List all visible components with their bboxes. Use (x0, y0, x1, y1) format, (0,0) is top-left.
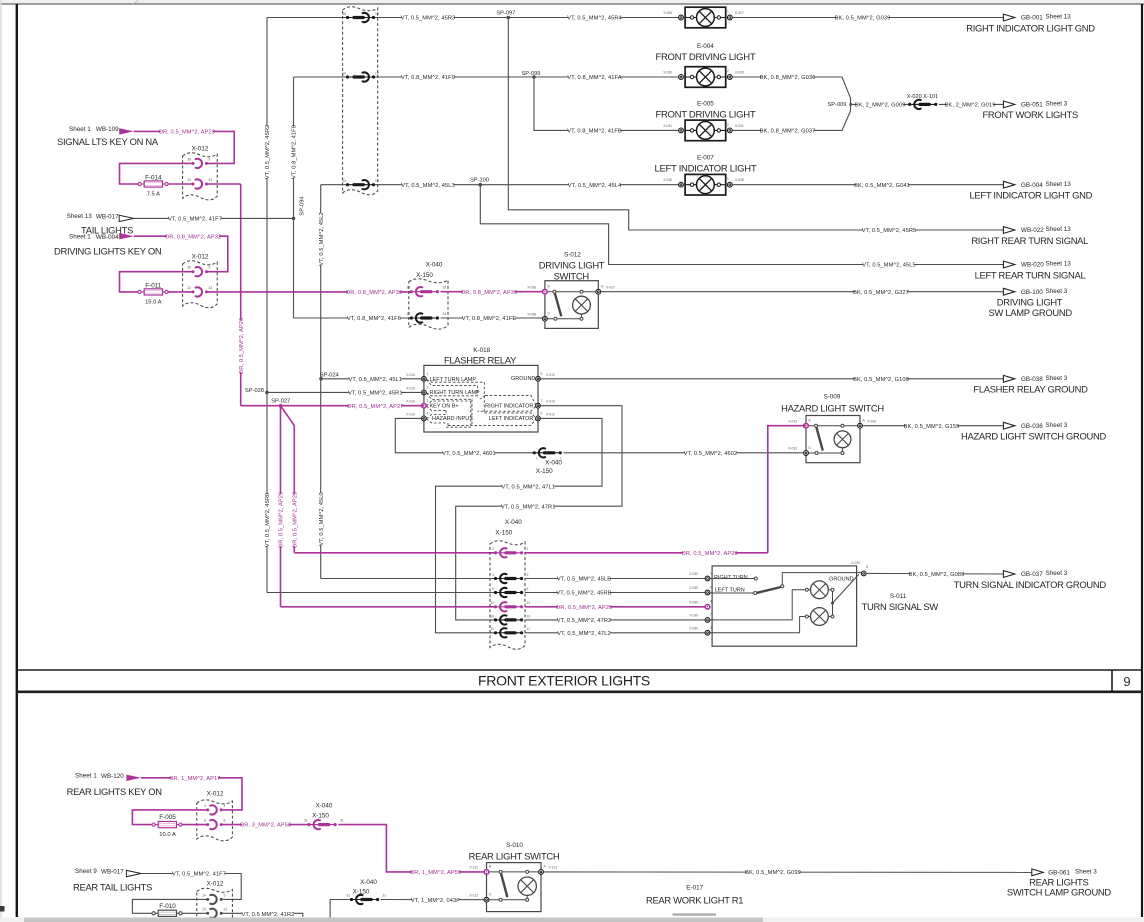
svg-text:Sheet 13: Sheet 13 (1046, 181, 1072, 188)
svg-text:4: 4 (204, 804, 206, 808)
svg-text:Sheet 3: Sheet 3 (1046, 288, 1068, 295)
svg-text:S-009: S-009 (824, 393, 841, 400)
svg-text:5: 5 (209, 157, 211, 161)
svg-text:BK, 0.8_MM^2, G037: BK, 0.8_MM^2, G037 (760, 128, 816, 134)
svg-text:8: 8 (224, 819, 226, 823)
svg-text:VT, 0.5_MM^2, 45LB: VT, 0.5_MM^2, 45LB (557, 577, 611, 583)
svg-text:OR, 0.5_MM^2, AP29: OR, 0.5_MM^2, AP29 (279, 492, 285, 548)
svg-text:19: 19 (342, 71, 346, 75)
svg-text:X-010: X-010 (546, 373, 555, 377)
svg-text:1: 1 (684, 69, 686, 73)
svg-text:BK, 0.5_MM^2, G039: BK, 0.5_MM^2, G039 (835, 16, 891, 22)
svg-text:X-039: X-039 (689, 586, 698, 590)
svg-text:1: 1 (684, 10, 686, 14)
svg-text:VT, 1_MM^2, 043P: VT, 1_MM^2, 043P (411, 898, 460, 904)
svg-text:4: 4 (224, 804, 226, 808)
svg-text:18: 18 (375, 12, 379, 16)
svg-text:1: 1 (536, 457, 538, 461)
svg-text:VT, 0.8_MM^2, 41FE: VT, 0.8_MM^2, 41FE (462, 316, 517, 322)
svg-text:X-012: X-012 (207, 791, 224, 798)
svg-text:X-038: X-038 (735, 178, 744, 182)
svg-text:S-012: S-012 (564, 251, 581, 258)
svg-text:5: 5 (527, 587, 529, 591)
svg-text:WB-022: WB-022 (1021, 227, 1044, 234)
svg-text:X-010: X-010 (406, 412, 415, 416)
svg-text:WB-020: WB-020 (1021, 262, 1044, 269)
svg-text:BK, 0.5_MM^2, G089: BK, 0.5_MM^2, G089 (909, 572, 965, 578)
svg-text:TURN SIGNAL SW: TURN SIGNAL SW (862, 601, 939, 612)
svg-text:X-006: X-006 (663, 11, 672, 15)
svg-text:F-014: F-014 (145, 175, 162, 182)
svg-text:10: 10 (490, 614, 494, 618)
svg-text:OR, 0.5_MM^2, AP26: OR, 0.5_MM^2, AP26 (239, 318, 245, 374)
svg-text:7: 7 (541, 399, 543, 403)
svg-text:3: 3 (527, 573, 529, 577)
svg-text:33: 33 (406, 286, 410, 290)
svg-text:REAR WORK LIGHT R1: REAR WORK LIGHT R1 (646, 894, 743, 905)
svg-text:X-010: X-010 (406, 386, 415, 390)
svg-text:X-150: X-150 (495, 529, 512, 536)
svg-text:X-038: X-038 (527, 312, 536, 316)
svg-text:WB-017: WB-017 (96, 213, 119, 220)
svg-text:Sheet 3: Sheet 3 (1046, 101, 1068, 108)
svg-text:WB-004: WB-004 (96, 234, 119, 241)
svg-text:WB-109: WB-109 (96, 126, 119, 133)
svg-text:X-031: X-031 (735, 124, 744, 128)
svg-text:SWITCH: SWITCH (554, 270, 589, 281)
svg-text:E-005: E-005 (697, 101, 714, 108)
svg-text:VT, 0.5_MM^2, 45R2: VT, 0.5_MM^2, 45R2 (265, 125, 271, 180)
svg-text:X-033: X-033 (788, 447, 797, 451)
svg-text:VT, 0.5 MM^2, 41R2: VT, 0.5 MM^2, 41R2 (242, 912, 295, 918)
svg-text:5: 5 (209, 266, 211, 270)
svg-text:DRIVING LIGHT: DRIVING LIGHT (997, 297, 1063, 308)
svg-text:3: 3 (710, 626, 712, 630)
svg-text:X-020 X-101: X-020 X-101 (907, 94, 938, 100)
svg-text:RIGHT REAR TURN SIGNAL: RIGHT REAR TURN SIGNAL (971, 235, 1088, 246)
svg-text:VT, 0.5_MM^2, 45R1: VT, 0.5_MM^2, 45R1 (348, 390, 403, 396)
svg-text:FRONT EXTERIOR LIGHTS: FRONT EXTERIOR LIGHTS (478, 673, 650, 689)
svg-text:3: 3 (492, 573, 494, 577)
svg-text:FLASHER RELAY: FLASHER RELAY (444, 354, 517, 365)
svg-text:X-039: X-039 (689, 572, 698, 576)
svg-text:SIGNAL LTS KEY ON NA: SIGNAL LTS KEY ON NA (57, 136, 159, 147)
svg-text:X-040: X-040 (316, 802, 333, 809)
svg-text:GB-037: GB-037 (1021, 571, 1043, 578)
svg-text:X-040: X-040 (505, 519, 522, 526)
svg-text:RIGHT INDICATOR LIGHT GND: RIGHT INDICATOR LIGHT GND (966, 22, 1095, 33)
svg-text:X-040: X-040 (360, 879, 377, 886)
svg-text:E-007: E-007 (697, 155, 714, 162)
svg-text:HAZARD LIGHT SWITCH: HAZARD LIGHT SWITCH (781, 402, 884, 413)
svg-text:VT, 0.8_MM^2, 41F8: VT, 0.8_MM^2, 41F8 (292, 125, 298, 179)
svg-text:OR, 0.8_MM^2, AP32: OR, 0.8_MM^2, AP32 (165, 234, 221, 240)
svg-text:BK, 2_MM^2, G009: BK, 2_MM^2, G009 (855, 102, 906, 108)
svg-text:GB-004: GB-004 (1021, 182, 1043, 189)
svg-text:34: 34 (443, 312, 447, 316)
svg-text:31: 31 (304, 819, 308, 823)
svg-text:GB-100: GB-100 (1021, 289, 1043, 296)
svg-text:FRONT DRIVING LIGHT: FRONT DRIVING LIGHT (655, 109, 755, 120)
svg-text:SP-009: SP-009 (828, 102, 847, 108)
svg-text:REAR LIGHT SWITCH: REAR LIGHT SWITCH (469, 850, 560, 861)
svg-text:X-012: X-012 (192, 145, 209, 152)
svg-text:Sheet 3: Sheet 3 (1046, 422, 1068, 429)
svg-text:X-010: X-010 (546, 400, 555, 404)
svg-text:1: 1 (710, 571, 712, 575)
svg-text:K-018: K-018 (473, 347, 490, 354)
svg-text:X-039: X-039 (689, 600, 698, 604)
svg-text:X-031: X-031 (663, 124, 672, 128)
svg-text:2: 2 (492, 547, 494, 551)
svg-text:34: 34 (406, 312, 410, 316)
svg-text:X-039: X-039 (689, 626, 698, 630)
svg-text:FLASHER RELAY GROUND: FLASHER RELAY GROUND (973, 384, 1088, 395)
svg-text:VT, 0.5_MM^2, 41F7: VT, 0.5_MM^2, 41F7 (172, 872, 226, 878)
svg-text:WB-017: WB-017 (101, 869, 124, 876)
svg-text:SP-024: SP-024 (320, 372, 339, 378)
svg-text:VT, 0.5_MM^2, 45L1: VT, 0.5_MM^2, 45L1 (348, 377, 402, 383)
svg-text:VT, 0.8_MM^2, 41FA: VT, 0.8_MM^2, 41FA (567, 75, 621, 81)
svg-text:VT, 0.5_MM^2, 45L0: VT, 0.5_MM^2, 45L0 (319, 492, 325, 546)
svg-text:Sheet 3: Sheet 3 (1046, 375, 1068, 382)
svg-text:Sheet 13: Sheet 13 (1046, 261, 1072, 268)
svg-text:X-010: X-010 (546, 412, 555, 416)
svg-text:24: 24 (187, 178, 191, 182)
svg-text:Sheet 13: Sheet 13 (1046, 226, 1072, 233)
svg-text:5: 5 (866, 565, 868, 569)
svg-text:VT, 0.5_MM^2, 4602: VT, 0.5_MM^2, 4602 (684, 451, 738, 457)
svg-text:GB-038: GB-038 (1021, 376, 1043, 383)
svg-text:SW LAMP GROUND: SW LAMP GROUND (989, 307, 1073, 318)
svg-text:19: 19 (375, 71, 379, 75)
svg-text:12: 12 (490, 601, 494, 605)
svg-text:SP-100: SP-100 (470, 178, 489, 184)
svg-text:HAZARD LIGHT SWITCH GROUND: HAZARD LIGHT SWITCH GROUND (961, 431, 1106, 442)
svg-text:2: 2 (727, 69, 729, 73)
svg-text:VT, 0.5_MM^2, 4601: VT, 0.5_MM^2, 4601 (442, 451, 496, 457)
svg-text:DRIVING LIGHTS KEY ON: DRIVING LIGHTS KEY ON (54, 245, 161, 256)
svg-text:DRIVING LIGHT: DRIVING LIGHT (539, 259, 605, 270)
svg-text:X-112: X-112 (549, 866, 558, 870)
svg-text:Sheet 9: Sheet 9 (75, 868, 97, 875)
svg-text:RIGHT TURN LAMP: RIGHT TURN LAMP (430, 390, 481, 396)
svg-text:VT, 0.5_MM^2, 47R1: VT, 0.5_MM^2, 47R1 (501, 504, 556, 510)
svg-text:10.0 A: 10.0 A (159, 832, 176, 838)
svg-text:F-005: F-005 (159, 814, 176, 821)
svg-text:Sheet 3: Sheet 3 (1046, 570, 1068, 577)
svg-text:5: 5 (492, 587, 494, 591)
svg-text:Sheet 1: Sheet 1 (69, 126, 91, 133)
svg-text:VT, 0.5_MM^2, 45L5: VT, 0.5_MM^2, 45L5 (862, 263, 916, 269)
svg-text:18: 18 (342, 12, 346, 16)
svg-text:VT, 0.8_MM^2, 41FB: VT, 0.8_MM^2, 41FB (567, 128, 622, 134)
svg-text:4: 4 (427, 412, 429, 416)
svg-text:6: 6 (541, 412, 543, 416)
svg-text:31: 31 (383, 894, 387, 898)
svg-text:OR, 0.8_MM^2, AP36: OR, 0.8_MM^2, AP36 (461, 290, 517, 296)
svg-text:GROUND: GROUND (511, 376, 535, 382)
svg-text:VT, 0.5_MM^2, 47R2: VT, 0.5_MM^2, 47R2 (557, 618, 612, 624)
svg-text:VT, 0.5_MM^2, 45L2: VT, 0.5_MM^2, 45L2 (319, 212, 325, 266)
svg-text:X-030: X-030 (663, 71, 672, 75)
svg-text:15.0 A: 15.0 A (145, 300, 162, 306)
svg-text:F-010: F-010 (159, 903, 176, 910)
svg-text:X-112: X-112 (469, 866, 478, 870)
svg-text:HAZARD INPUT: HAZARD INPUT (432, 416, 473, 422)
svg-text:X-010: X-010 (406, 400, 415, 404)
svg-text:LEFT INDICATOR: LEFT INDICATOR (489, 416, 534, 422)
svg-text:32: 32 (187, 286, 191, 290)
svg-text:23: 23 (202, 907, 206, 911)
svg-text:11: 11 (527, 627, 531, 631)
svg-text:5: 5 (541, 372, 543, 376)
svg-text:VT, 0.5_MM^2, 45R0: VT, 0.5_MM^2, 45R0 (265, 493, 271, 548)
svg-text:BK, 0.5_MM^2, G100: BK, 0.5_MM^2, G100 (853, 377, 909, 383)
svg-text:BK, 0.5_MM^2, G327: BK, 0.5_MM^2, G327 (853, 290, 909, 296)
svg-text:Sheet 13: Sheet 13 (67, 213, 93, 220)
svg-text:BK, 0.5_MM^2, G099: BK, 0.5_MM^2, G099 (745, 870, 801, 876)
svg-text:4: 4 (710, 600, 712, 604)
svg-text:TURN SIGNAL INDICATOR GROUND: TURN SIGNAL INDICATOR GROUND (954, 579, 1107, 590)
svg-text:GB-036: GB-036 (1021, 423, 1043, 430)
svg-text:2: 2 (727, 122, 729, 126)
svg-text:VT, 0.5_MM^2, 45L3: VT, 0.5_MM^2, 45L3 (401, 183, 455, 189)
svg-text:X-012: X-012 (207, 881, 224, 888)
svg-text:OR, 0.8_MM^2, AP30: OR, 0.8_MM^2, AP30 (346, 290, 402, 296)
svg-text:E-004: E-004 (697, 43, 714, 50)
svg-text:SP-027: SP-027 (271, 399, 290, 405)
svg-text:BK, 0.8_MM^2, G036: BK, 0.8_MM^2, G036 (760, 75, 816, 81)
svg-text:X-038: X-038 (527, 285, 536, 289)
svg-text:VT, 0.5_MM^2, 45R5: VT, 0.5_MM^2, 45R5 (862, 228, 917, 234)
svg-text:LEFT INDICATOR LIGHT GND: LEFT INDICATOR LIGHT GND (970, 190, 1093, 201)
svg-text:WB-120: WB-120 (101, 773, 124, 780)
svg-text:X-036: X-036 (663, 178, 672, 182)
svg-text:VT, 0.5_MM^2, 47L2: VT, 0.5_MM^2, 47L2 (557, 631, 611, 637)
svg-text:X-112: X-112 (469, 893, 478, 897)
svg-text:2: 2 (427, 386, 429, 390)
svg-text:VT, 0.8_MM^2, 41F6: VT, 0.8_MM^2, 41F6 (347, 316, 401, 322)
svg-text:11: 11 (491, 627, 495, 631)
svg-text:2: 2 (527, 547, 529, 551)
svg-text:2: 2 (710, 585, 712, 589)
svg-text:GB-051: GB-051 (1021, 102, 1043, 109)
svg-text:GROUND: GROUND (829, 577, 853, 583)
svg-text:13: 13 (375, 179, 379, 183)
svg-text:KEY ON B+: KEY ON B+ (430, 403, 459, 409)
svg-text:X-150: X-150 (536, 468, 553, 475)
svg-text:OR, 0.5_MM^2, AP25: OR, 0.5_MM^2, AP25 (556, 605, 612, 611)
svg-text:X-040: X-040 (426, 261, 443, 268)
svg-text:REAR LIGHTS KEY ON: REAR LIGHTS KEY ON (67, 786, 162, 797)
svg-text:OR, 1_MM^2, AP59: OR, 1_MM^2, AP59 (410, 870, 462, 876)
svg-text:3: 3 (427, 399, 429, 403)
svg-text:28: 28 (187, 157, 191, 161)
svg-text:1: 1 (727, 177, 729, 181)
svg-text:Sheet 3: Sheet 3 (1075, 868, 1097, 875)
svg-text:RIGHT TURN: RIGHT TURN (714, 575, 748, 581)
svg-text:VT, 0.5_MM^2, 45R4: VT, 0.5_MM^2, 45R4 (567, 16, 622, 22)
svg-text:SWITCH LAMP GROUND: SWITCH LAMP GROUND (1007, 887, 1112, 898)
svg-text:X-010: X-010 (406, 373, 415, 377)
svg-text:LEFT REAR TURN SIGNAL: LEFT REAR TURN SIGNAL (975, 269, 1086, 280)
svg-text:GB-001: GB-001 (1021, 15, 1043, 22)
svg-text:10: 10 (527, 614, 531, 618)
svg-text:1: 1 (684, 177, 686, 181)
svg-text:X-150: X-150 (312, 812, 329, 819)
svg-text:9: 9 (1123, 674, 1130, 689)
svg-text:VT, 0.8_MM^2, 41F9: VT, 0.8_MM^2, 41F9 (401, 75, 455, 81)
svg-text:X-039: X-039 (689, 614, 698, 618)
svg-text:VT, 0.5_MM^2, 41F7: VT, 0.5_MM^2, 41F7 (168, 216, 222, 222)
svg-text:31: 31 (346, 894, 350, 898)
svg-text:1: 1 (427, 372, 429, 376)
svg-text:FRONT WORK LIGHTS: FRONT WORK LIGHTS (982, 109, 1077, 120)
svg-text:5: 5 (224, 893, 226, 897)
svg-text:F-011: F-011 (145, 282, 161, 289)
svg-text:8: 8 (204, 819, 206, 823)
svg-text:32: 32 (209, 286, 213, 290)
svg-text:X-012: X-012 (192, 253, 209, 260)
svg-text:X-032: X-032 (868, 419, 877, 423)
svg-text:E-017: E-017 (686, 885, 703, 892)
svg-text:OR, 0.5_MM^2, AP28: OR, 0.5_MM^2, AP28 (292, 492, 298, 548)
svg-text:33: 33 (443, 286, 447, 290)
svg-text:X-040: X-040 (545, 460, 562, 467)
svg-text:X-033: X-033 (788, 419, 797, 423)
svg-text:Sheet 1: Sheet 1 (69, 233, 91, 240)
svg-text:S-010: S-010 (506, 842, 523, 849)
svg-text:24: 24 (209, 178, 213, 182)
svg-text:SP-099: SP-099 (522, 71, 541, 77)
svg-text:14: 14 (202, 893, 206, 897)
svg-text:VT, 0.5_MM^2, 45R3: VT, 0.5_MM^2, 45R3 (401, 16, 456, 22)
svg-text:S-011: S-011 (890, 593, 907, 600)
svg-text:REAR TAIL LIGHTS: REAR TAIL LIGHTS (73, 881, 152, 892)
svg-text:7: 7 (710, 613, 712, 617)
svg-text:12: 12 (527, 601, 531, 605)
svg-text:OR, 0.5_MM^2, AP20: OR, 0.5_MM^2, AP20 (681, 551, 737, 557)
svg-text:Sheet 1: Sheet 1 (75, 772, 97, 779)
svg-text:OR, 0.5_MM^2, AP23: OR, 0.5_MM^2, AP23 (158, 129, 214, 135)
svg-text:SP-028: SP-028 (245, 388, 264, 394)
svg-text:BK, 0.5_MM^2, G041: BK, 0.5_MM^2, G041 (854, 183, 910, 189)
svg-text:BK, 0.5_MM^2, G159: BK, 0.5_MM^2, G159 (904, 424, 960, 430)
svg-text:OR, 1_MM^2, AP17: OR, 1_MM^2, AP17 (169, 776, 221, 782)
svg-text:Sheet 13: Sheet 13 (1046, 14, 1072, 21)
svg-text:X-039: X-039 (851, 561, 860, 565)
svg-text:VT, 0.5_MM^2, 47L1: VT, 0.5_MM^2, 47L1 (501, 484, 555, 490)
svg-text:SP-094: SP-094 (300, 196, 306, 215)
svg-text:LEFT INDICATOR LIGHT: LEFT INDICATOR LIGHT (654, 163, 756, 174)
svg-text:X-030: X-030 (735, 71, 744, 75)
svg-text:31: 31 (340, 819, 344, 823)
svg-text:BK, 2_MM^2, G019: BK, 2_MM^2, G019 (945, 102, 996, 108)
svg-text:X-150: X-150 (416, 272, 433, 279)
svg-text:28: 28 (187, 266, 191, 270)
svg-text:1: 1 (684, 122, 686, 126)
svg-text:1: 1 (727, 10, 729, 14)
svg-text:13: 13 (342, 179, 346, 183)
svg-text:7.5 A: 7.5 A (147, 192, 160, 198)
svg-text:OR, 3_MM^2, AP58: OR, 3_MM^2, AP58 (240, 823, 292, 829)
svg-text:FRONT DRIVING LIGHT: FRONT DRIVING LIGHT (655, 52, 755, 63)
svg-text:RIGHT INDICATOR: RIGHT INDICATOR (485, 403, 533, 409)
svg-text:OR, 0.5_MM^2, AP27: OR, 0.5_MM^2, AP27 (347, 404, 403, 410)
svg-text:SP-097: SP-097 (496, 11, 515, 17)
svg-text:X-037: X-037 (606, 285, 615, 289)
svg-text:X-007: X-007 (735, 11, 744, 15)
svg-text:23: 23 (224, 907, 228, 911)
svg-text:VT, 0.5_MM^2, 45RB: VT, 0.5_MM^2, 45RB (556, 591, 611, 597)
svg-text:VT, 0.5_MM^2, 45L4: VT, 0.5_MM^2, 45L4 (568, 183, 622, 189)
